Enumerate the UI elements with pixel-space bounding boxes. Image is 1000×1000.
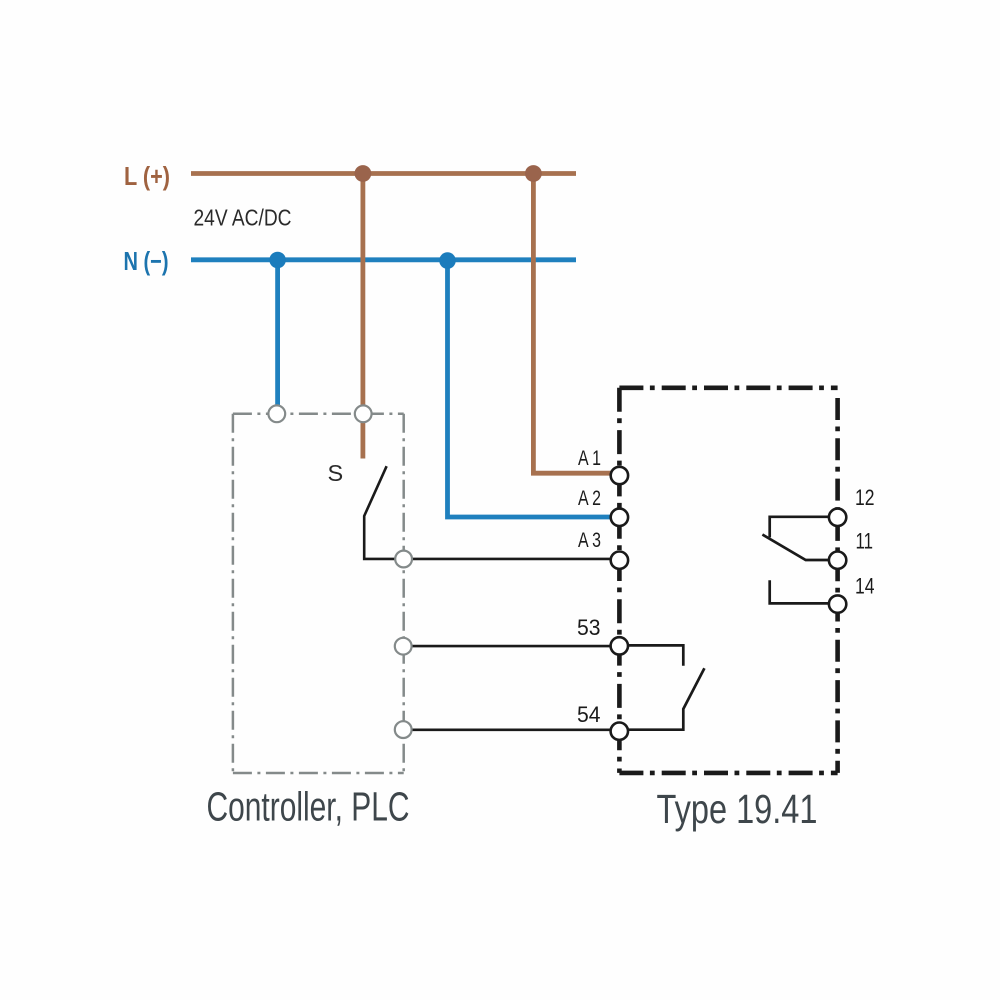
controller PLC dashed box (233, 413, 404, 416)
terminal 12 (829, 509, 846, 526)
svg-text:A 3: A 3 (578, 529, 601, 552)
terminal 54 (611, 723, 628, 740)
svg-text:Controller, PLC: Controller, PLC (207, 784, 410, 830)
wire L(+) brown bus (191, 171, 576, 176)
junction blue dot 2 (439, 252, 456, 269)
junction brown dot 1 (355, 165, 372, 182)
svg-text:Type 19.41: Type 19.41 (657, 786, 818, 832)
svg-text:53: 53 (577, 615, 601, 640)
terminal A2 (611, 509, 628, 526)
terminal 53 (611, 637, 628, 654)
node gray circle A3 (395, 551, 412, 568)
terminal A3 (611, 552, 628, 569)
wire N(-) blue bus (191, 257, 576, 262)
svg-text:A 1: A 1 (578, 447, 601, 470)
contact 54 blade (628, 668, 704, 729)
terminal 11 (829, 552, 846, 569)
wire 53 from controller (396, 645, 611, 648)
svg-text:14: 14 (855, 573, 875, 598)
switch S blade and wire to A3 (364, 466, 611, 559)
svg-text:A 2: A 2 (578, 487, 601, 510)
contact 53 fixed (628, 645, 683, 665)
terminal 14 (829, 595, 846, 612)
contact 12 fixed (770, 517, 829, 538)
svg-text:12: 12 (855, 485, 875, 510)
node gray circle 54 (395, 721, 412, 738)
junction blue dot 1 (269, 252, 286, 269)
contact 14 fixed (770, 580, 829, 603)
node gray circle 53 (395, 638, 412, 655)
wire blue drop to controller (275, 260, 280, 406)
wire brown drop to A1 (533, 174, 611, 474)
relay Type 19.41 dash-dot box (619, 385, 837, 390)
contact 11 blade (762, 535, 829, 561)
node gray circle blue-in (268, 405, 285, 422)
wire blue drop to A2 (448, 260, 612, 517)
svg-text:11: 11 (856, 529, 874, 554)
svg-text:L (+): L (+) (124, 161, 170, 191)
node gray circle brown-in (355, 405, 372, 422)
wire 54 from controller (396, 728, 611, 731)
junction brown dot 2 (525, 165, 542, 182)
svg-text:54: 54 (577, 702, 601, 727)
svg-text:N (−): N (−) (124, 246, 169, 276)
terminal A1 (611, 467, 628, 484)
svg-text:S: S (328, 460, 344, 486)
wire brown drop through controller to switch (360, 174, 365, 459)
svg-text:24V AC/DC: 24V AC/DC (194, 205, 292, 231)
